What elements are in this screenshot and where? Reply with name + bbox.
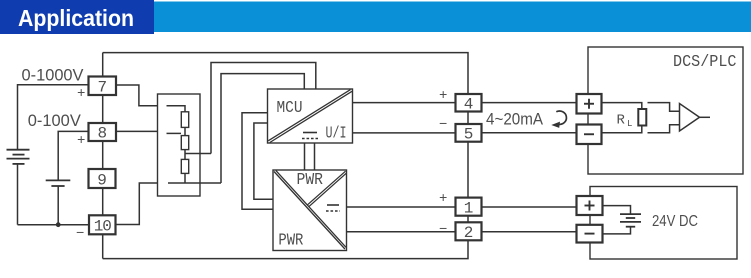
wire: box 8 to divider network	[116, 130, 158, 132]
current direction curved arrow	[556, 111, 566, 124]
svg-text:L: L	[627, 119, 632, 129]
terminal box 7	[89, 77, 117, 96]
svg-text:MCU: MCU	[277, 99, 303, 118]
load resistor RL	[638, 109, 646, 126]
battery B1 plate long 1	[7, 149, 30, 151]
PWR secondary diagonal (double line)	[308, 171, 346, 205]
resistor R1	[181, 112, 188, 128]
chain segment R2-R3	[184, 150, 186, 160]
svg-text:R: R	[617, 113, 626, 129]
battery B2 plate long	[46, 179, 71, 181]
MCU isolation symbol solid line	[303, 132, 317, 134]
DCS minus terminal box	[577, 125, 602, 145]
MCU isolation diagonal (double line)	[268, 90, 350, 141]
wire: box 7 to divider network	[116, 85, 158, 106]
battery 24V plate long 1	[620, 213, 641, 215]
resistor R3	[181, 159, 188, 173]
PWR main diagonal (double line)	[274, 172, 345, 250]
wire: box 10 to divider network	[116, 183, 158, 225]
svg-text:0-100V: 0-100V	[28, 112, 81, 130]
svg-text:−: −	[76, 226, 84, 242]
svg-text:PWR: PWR	[297, 171, 324, 190]
terminal box 1	[456, 198, 482, 216]
svg-text:+: +	[439, 191, 447, 207]
amplifier triangle	[680, 104, 700, 132]
terminal box 4	[456, 94, 482, 112]
PWR isolation symbol solid line	[327, 204, 339, 206]
svg-text:9: 9	[97, 172, 107, 190]
wire: battery to 24V minus	[603, 227, 631, 234]
terminal box 10	[89, 215, 116, 234]
wire: DCS plus to load resistor	[602, 103, 642, 110]
24V DC outer box	[590, 187, 737, 260]
svg-text:10: 10	[94, 218, 112, 236]
wire bracket MCU-left to PWR-left (outer)	[242, 113, 273, 210]
svg-text:24V DC: 24V DC	[652, 213, 698, 230]
divider network box	[158, 94, 201, 196]
vertical wire box4-box5	[467, 112, 469, 125]
svg-text:Application: Application	[18, 5, 134, 31]
MCU isolation symbol dashed line	[302, 138, 318, 140]
divider bottom line out	[168, 182, 221, 184]
wire: connector to amplifier minus	[648, 125, 680, 133]
divider chain top stub	[167, 106, 186, 112]
svg-text:−: −	[439, 117, 447, 133]
svg-text:1: 1	[464, 199, 474, 217]
MCU / U-I module box	[268, 89, 353, 143]
24V plus terminal box	[577, 196, 603, 215]
wire: box 4 to DCS plus terminal	[482, 102, 577, 104]
divider tap stub 2	[167, 132, 182, 134]
wire: MCU right to box 5	[353, 132, 456, 134]
wire: battery B1 to bottom node	[17, 164, 19, 225]
wire: MCU bottom to PWR top (left)	[304, 143, 306, 170]
resistor R2	[181, 136, 188, 150]
24V minus terminal box	[577, 225, 603, 243]
chain segment R3-bottom	[184, 173, 186, 183]
vertical wire box5-box1	[467, 142, 469, 198]
wire: connector to amplifier plus	[648, 103, 680, 112]
svg-text:−: −	[439, 222, 447, 238]
wire: left rail to box 7	[18, 85, 89, 150]
battery 24V plate short 2	[626, 226, 635, 228]
wire: mid tap up to MCU top (outer)	[211, 63, 316, 154]
wire: box 2 to 24V minus terminal	[482, 231, 577, 233]
terminal box 2	[456, 222, 482, 240]
battery B1 plate long 2	[7, 158, 30, 160]
wire: PWR right to box 2	[347, 231, 456, 233]
wire: bottom tap up to MCU top (inner)	[221, 74, 304, 183]
terminal box 9	[89, 169, 116, 188]
battery B1 plate short 1	[13, 154, 25, 156]
wire: battery B2 down to junction	[57, 186, 59, 225]
svg-text:2: 2	[464, 224, 474, 242]
wire: PWR right to box 1	[347, 206, 456, 208]
svg-text:DCS/PLC: DCS/PLC	[673, 52, 737, 71]
junction dot	[56, 222, 61, 227]
svg-text:PWR: PWR	[278, 232, 303, 251]
svg-text:5: 5	[464, 126, 474, 144]
center vertical wire through boxes 7-10	[102, 53, 104, 77]
chain segment R1-R2	[184, 127, 186, 135]
svg-text:+: +	[77, 133, 85, 149]
battery 24V plate short 1	[626, 217, 635, 219]
wire: MCU right to box 4	[353, 102, 456, 104]
svg-text:0-1000V: 0-1000V	[22, 67, 84, 85]
wire: box 5 to DCS minus terminal	[482, 132, 577, 134]
terminal box 8	[89, 123, 117, 141]
wire: DCS minus to load resistor	[602, 126, 642, 133]
amplifier output wire	[700, 116, 711, 118]
vertical wire box1-box2	[467, 216, 469, 223]
wire bracket MCU-left to PWR-left (inner)	[254, 123, 273, 199]
svg-text:+: +	[77, 86, 85, 102]
top rail wire	[103, 53, 468, 94]
wire: MCU bottom to PWR top (right)	[314, 143, 316, 170]
svg-text:4: 4	[464, 96, 474, 114]
battery B2 plate short	[51, 185, 64, 187]
terminal box 5	[456, 124, 482, 142]
header dark blue badge	[0, 0, 154, 34]
wire: 24V plus to battery	[603, 206, 631, 215]
svg-text:8: 8	[97, 125, 107, 143]
svg-text:U/I: U/I	[326, 125, 347, 144]
wire: bottom horizontal to box 10	[18, 224, 90, 226]
DCS/PLC outer box	[588, 47, 743, 174]
header light blue bar	[0, 2, 751, 33]
wire: box 1 to 24V plus terminal	[482, 206, 577, 208]
DCS plus terminal box	[577, 94, 602, 114]
svg-text:7: 7	[97, 79, 107, 97]
wire: box 8 to battery B2	[58, 131, 88, 180]
svg-text:+: +	[439, 88, 447, 104]
battery B1 plate short 2	[13, 163, 25, 165]
battery 24V plate long 2	[620, 221, 641, 223]
PWR isolation symbol dashed line	[326, 210, 340, 212]
PWR module box	[273, 170, 347, 251]
bottom rail wire	[103, 240, 468, 258]
svg-text:4~20mA: 4~20mA	[486, 110, 543, 128]
divider mid tap out	[185, 153, 211, 155]
